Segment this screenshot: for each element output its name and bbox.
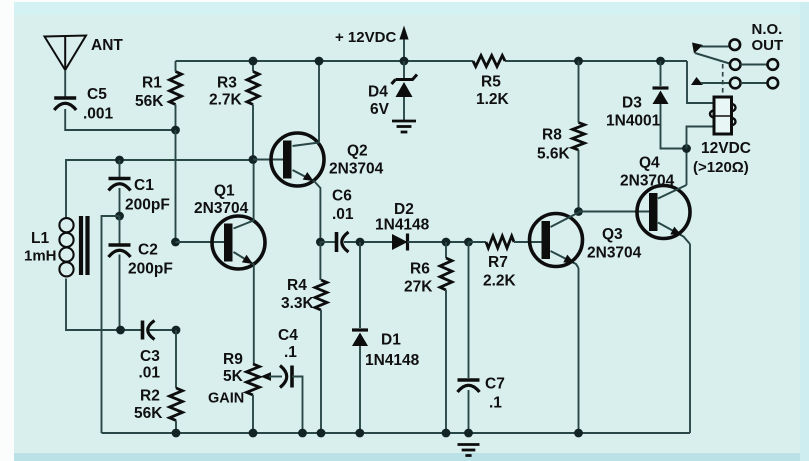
svg-text:5K: 5K: [223, 368, 244, 385]
diode D1 1N4148: [352, 328, 368, 331]
svg-text:R3: R3: [217, 75, 237, 92]
svg-text:200pF: 200pF: [125, 197, 170, 214]
svg-text:OUT: OUT: [752, 37, 784, 54]
svg-text:ANT: ANT: [91, 37, 123, 54]
wire Q1 emitter to R9: [253, 264, 255, 364]
svg-text:1N4148: 1N4148: [375, 217, 430, 234]
svg-text:C7: C7: [485, 376, 505, 393]
node top rail Q2 collector: [315, 57, 324, 66]
resistor R1: [175, 61, 177, 72]
diode D2 1N4148: [392, 234, 408, 250]
wire R9 to bottom rail: [252, 395, 254, 433]
wire C6 to D2 node: [344, 241, 392, 243]
resistor R7: [469, 241, 487, 243]
svg-text:R6: R6: [410, 261, 430, 278]
node C2 bottom / C3 left: [116, 326, 125, 335]
svg-text:200pF: 200pF: [128, 261, 173, 278]
svg-text:C5: C5: [87, 86, 107, 103]
wire Q2 base: [253, 159, 284, 161]
relay contact circle pole: [730, 59, 741, 70]
core bars of L1: [79, 216, 83, 275]
wire R1 column down to Q1 base node: [175, 130, 177, 242]
relay coil 12VDC: [714, 97, 732, 134]
node rail R4: [317, 429, 326, 438]
capacitor C6: [335, 232, 339, 252]
node rail R2: [172, 429, 181, 438]
antenna ANT: [45, 36, 87, 71]
svg-text:.001: .001: [83, 106, 114, 123]
svg-text:C6: C6: [332, 188, 352, 205]
wire rail to D3: [660, 61, 662, 86]
relay switch lever: [695, 53, 730, 64]
wire C1/C2 junction to ground return column: [102, 216, 120, 433]
relay switch mechanical link (dashed): [722, 64, 724, 96]
node Q4 collector / relay coil: [682, 144, 691, 153]
svg-text:6V: 6V: [370, 101, 390, 118]
resistor R6: [445, 242, 447, 258]
wire rail to D4: [403, 61, 405, 79]
capacitor C2: [119, 216, 121, 244]
svg-text:Q1: Q1: [214, 183, 235, 200]
svg-text:L1: L1: [31, 230, 49, 247]
transistor Q2 2N3704: [271, 133, 324, 186]
wire D4 to ground: [403, 97, 405, 120]
node rail R9: [249, 429, 258, 438]
wire C7 column: [468, 242, 470, 378]
resistor R2: [175, 330, 177, 388]
Q2 collector to top rail: [293, 143, 320, 147]
svg-text:C2: C2: [138, 242, 158, 259]
svg-text:Q3: Q3: [602, 226, 623, 243]
svg-text:R4: R4: [287, 277, 307, 294]
wire D3 to Q4 collector node: [661, 104, 687, 149]
capacitor C3: [141, 321, 145, 340]
svg-text:2N3704: 2N3704: [587, 245, 642, 262]
svg-text:R7: R7: [488, 254, 508, 271]
svg-text:3.3K: 3.3K: [281, 295, 315, 312]
node Q1 base junction: [171, 238, 180, 247]
wire antenna to C5: [64, 70, 66, 97]
Q3 collector: [551, 213, 579, 228]
capacitor C7: [458, 378, 480, 382]
transistor Q4 2N3704: [637, 186, 690, 239]
supply +12VDC arrow: [403, 36, 405, 58]
relay contact circle common: [730, 39, 741, 50]
wire bottom ground rail: [102, 432, 691, 434]
capacitor C1: [119, 160, 121, 177]
Q1 collector: [234, 221, 254, 229]
node rail Q3 emitter: [574, 429, 583, 438]
svg-text:R5: R5: [481, 74, 501, 91]
transistor Q1 2N3704: [212, 216, 265, 269]
resistor R3: [252, 61, 254, 72]
node R8/Q3 collector/Q4 base: [574, 207, 583, 216]
out terminal circle 2: [768, 78, 779, 89]
svg-text:D2: D2: [394, 201, 414, 218]
node R3/Q1/Q2 junction: [249, 155, 258, 164]
relay contact circle NO: [730, 78, 741, 89]
svg-text:R8: R8: [542, 127, 562, 144]
node C7 top: [464, 238, 473, 247]
svg-text:.01: .01: [332, 206, 354, 223]
wire Q4 emitter to bottom rail: [689, 244, 691, 433]
svg-text:5.6K: 5.6K: [537, 146, 571, 163]
relay switch NO contact arrow: [691, 77, 703, 85]
wire Q3 emitter to bottom rail: [578, 268, 580, 433]
node C3 right / R2 top: [172, 326, 181, 335]
svg-text:GAIN: GAIN: [208, 391, 244, 407]
wire Q1 base: [176, 241, 226, 243]
svg-text:D1: D1: [381, 332, 401, 349]
svg-text:2.2K: 2.2K: [483, 273, 517, 290]
svg-text:.1: .1: [284, 344, 297, 361]
inductor L1: [59, 218, 73, 276]
svg-text:+ 12VDC: + 12VDC: [335, 29, 396, 46]
transistor Q3 2N3704: [530, 214, 583, 267]
svg-text:.1: .1: [489, 395, 502, 412]
ground below D4: [392, 120, 416, 123]
wire top rail to relay coil: [687, 61, 714, 103]
node R6 top: [442, 238, 451, 247]
wire pole to out terminal: [741, 64, 768, 66]
node Q2 emitter / C6 / R4: [316, 238, 325, 247]
node R1/C5 junction: [171, 126, 180, 135]
R9 wiper arrow: [261, 372, 272, 381]
wire +12V top rail: [176, 60, 474, 62]
wire node to C6: [320, 241, 336, 243]
node C1/C2 junction: [115, 212, 124, 221]
svg-text:C3: C3: [140, 348, 160, 365]
wire C4 to bottom rail: [292, 377, 303, 434]
capacitor C5: [54, 96, 76, 100]
svg-text:R9: R9: [223, 351, 243, 368]
wire D2 to R6 node: [408, 241, 469, 243]
node rail C7: [464, 429, 473, 438]
wire relay coil bottom to Q4 collector node: [687, 127, 715, 149]
node top rail D4: [400, 57, 409, 66]
svg-text:27K: 27K: [404, 279, 433, 296]
svg-text:1N4148: 1N4148: [365, 352, 420, 369]
wire C5 to node R1 bottom: [65, 109, 175, 130]
svg-text:N.O.: N.O.: [752, 21, 783, 38]
svg-text:Q4: Q4: [639, 155, 660, 172]
node top rail R8: [574, 57, 583, 66]
node rail C4: [298, 429, 307, 438]
Q2 emitter with arrow: [293, 170, 315, 182]
svg-text:1mH: 1mH: [24, 248, 57, 265]
svg-text:D3: D3: [622, 95, 642, 112]
potentiometer R9 5K: [247, 364, 260, 395]
Q1 emitter with arrow: [234, 252, 255, 265]
svg-text:C4: C4: [278, 327, 298, 344]
svg-text:.01: .01: [139, 365, 161, 382]
node rail D1: [355, 429, 364, 438]
svg-text:56K: 56K: [135, 93, 164, 110]
resistor R4: [319, 242, 321, 280]
svg-text:Q2: Q2: [347, 143, 368, 160]
svg-text:2N3704: 2N3704: [194, 200, 249, 217]
svg-text:(>120Ω): (>120Ω): [693, 159, 749, 176]
relay switch NC contact arrow: [692, 43, 703, 54]
wire C3 to R2 column: [149, 329, 176, 331]
svg-text:56K: 56K: [134, 405, 163, 422]
svg-text:C1: C1: [134, 177, 154, 194]
wire D1 to bottom rail: [359, 346, 361, 433]
capacitor C4: [290, 366, 294, 388]
node top rail D3: [656, 57, 665, 66]
diode D3 1N4001: [653, 86, 669, 89]
svg-text:1N4001: 1N4001: [606, 113, 661, 130]
zener diode D4: [396, 75, 418, 80]
wire L1 bottom to C3 row: [66, 279, 142, 331]
Q4 collector: [658, 185, 687, 199]
node C1 top: [115, 156, 124, 165]
wire C7 to bottom rail: [468, 390, 470, 433]
svg-text:12VDC: 12VDC: [701, 140, 751, 157]
svg-text:1.2K: 1.2K: [476, 91, 510, 108]
svg-text:R2: R2: [140, 388, 160, 405]
wire D2 node to D1: [359, 242, 361, 328]
svg-text:2N3704: 2N3704: [620, 173, 675, 190]
svg-text:2.7K: 2.7K: [209, 92, 243, 109]
node top rail R3: [249, 57, 258, 66]
node C6/D2: [356, 238, 365, 247]
svg-text:D4: D4: [368, 84, 388, 101]
wire NO to out terminal: [741, 82, 768, 84]
Q3 emitter with arrow: [551, 251, 579, 268]
resistor R5: [473, 56, 505, 67]
resistor R8: [578, 61, 580, 123]
svg-text:R1: R1: [142, 75, 162, 92]
out terminal circle 1: [768, 59, 779, 70]
wire Q4 base: [579, 211, 650, 213]
Q4 emitter with arrow: [658, 223, 690, 245]
ground symbol at C7: [458, 443, 480, 446]
wire tank top: C1 node to L1 and to Q1 collector node: [120, 159, 254, 161]
node rail R6: [442, 429, 451, 438]
svg-text:2N3704: 2N3704: [329, 161, 384, 178]
